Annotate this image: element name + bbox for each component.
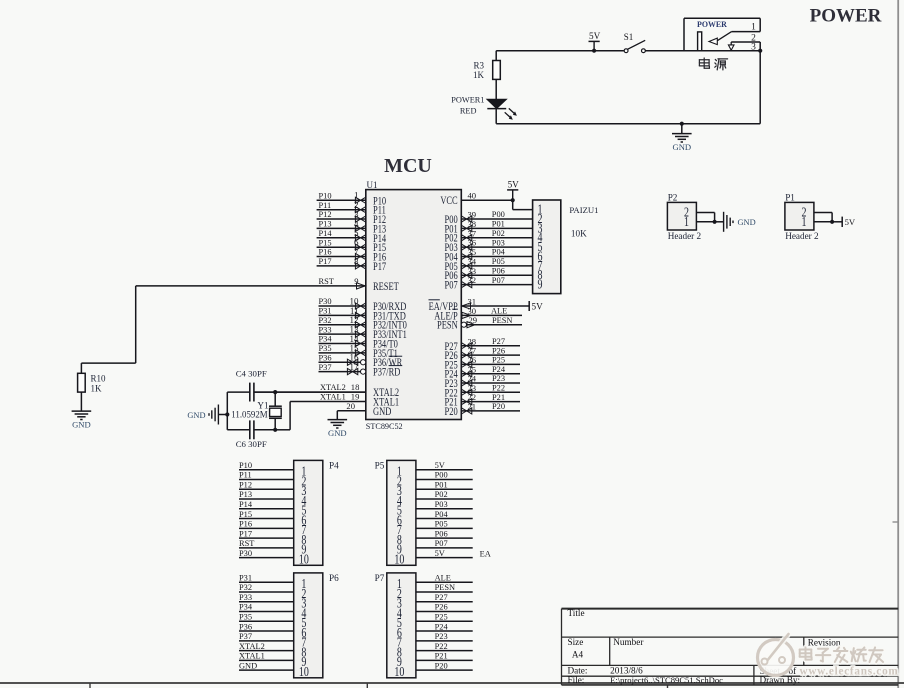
svg-text:R10: R10 xyxy=(91,374,107,384)
svg-text:P31: P31 xyxy=(319,307,332,316)
svg-text:P00: P00 xyxy=(435,471,448,480)
ground GND below U1 xyxy=(328,411,348,438)
wire net P12 to P4 pin 3 xyxy=(239,480,294,489)
pin 10 P30/RXD of U1 with net label P30 xyxy=(319,296,407,313)
wire net P14 to P4 pin 5 xyxy=(239,500,294,509)
svg-text:EA: EA xyxy=(480,549,491,558)
svg-text:GND: GND xyxy=(72,420,91,430)
svg-text:P24: P24 xyxy=(492,365,506,374)
svg-text:File:: File: xyxy=(568,675,585,685)
svg-text:P27: P27 xyxy=(435,593,448,602)
svg-text:P32: P32 xyxy=(239,583,252,592)
wire net P31 to P6 pin 1 xyxy=(239,573,294,582)
svg-text:P00: P00 xyxy=(492,210,505,219)
wire net P30 to P4 pin 10 xyxy=(239,549,294,558)
svg-text:5V: 5V xyxy=(508,180,520,190)
wire net GND to P6 pin 10 xyxy=(239,661,294,670)
svg-text:10: 10 xyxy=(394,663,404,679)
pin 6 P15 of U1 with net label P15 xyxy=(317,238,387,255)
connector P4 Header 10 xyxy=(294,460,339,566)
pin 20 GND of U1 xyxy=(337,401,391,418)
wire net PESN to P7 pin 2 xyxy=(416,583,473,592)
svg-text:P35: P35 xyxy=(239,612,252,621)
svg-text:P7: P7 xyxy=(375,573,385,583)
svg-text:5V: 5V xyxy=(435,549,445,558)
svg-text:POWER: POWER xyxy=(697,20,727,29)
svg-text:P26: P26 xyxy=(492,346,505,355)
capacitor C6 30PF xyxy=(227,420,275,448)
svg-text:Revision: Revision xyxy=(808,637,841,647)
pin 15 P35/T1 of U1 with net label P35 xyxy=(319,343,398,360)
wire net RST to P4 pin 9 xyxy=(239,539,294,548)
svg-text:P02: P02 xyxy=(435,490,448,499)
pin 14 P34/T0 of U1 with net label P34 xyxy=(319,334,398,351)
wire net P35 to P6 pin 5 xyxy=(239,612,294,621)
svg-text:P14: P14 xyxy=(319,229,333,238)
svg-text:P11: P11 xyxy=(239,471,252,480)
svg-text:P07: P07 xyxy=(435,539,448,548)
svg-text:11.0592M: 11.0592M xyxy=(231,409,268,419)
svg-text:P12: P12 xyxy=(239,480,252,489)
svg-text:10K: 10K xyxy=(571,228,587,238)
svg-text:P35: P35 xyxy=(319,344,332,353)
pin 33 P06 of U1 with net label P06 xyxy=(445,266,533,283)
wire ground rail bottom of power loop xyxy=(496,123,760,125)
svg-text:P22: P22 xyxy=(435,642,448,651)
svg-text:P25: P25 xyxy=(435,612,448,621)
wire 5V to PAIZU1 pin 1 xyxy=(513,200,533,209)
wire net P13 to P4 pin 4 xyxy=(239,490,294,499)
svg-text:10: 10 xyxy=(299,551,309,567)
svg-text:P25: P25 xyxy=(492,356,505,365)
wire net P37 to P6 pin 7 xyxy=(239,632,294,641)
svg-text:20: 20 xyxy=(346,401,355,411)
svg-text:www.elecfans.com: www.elecfans.com xyxy=(800,666,899,678)
svg-text:GND: GND xyxy=(328,428,347,438)
ground GND at crystal rail xyxy=(187,405,229,425)
pin 32 P07 of U1 with net label P07 xyxy=(445,275,533,292)
svg-text:P06: P06 xyxy=(492,266,505,275)
wire net P22 to P7 pin 8 xyxy=(416,642,473,651)
pin 19 XTAL1 of U1 with net label XTAL1 xyxy=(290,392,399,409)
svg-text:5V: 5V xyxy=(532,301,544,311)
svg-text:STC89C52: STC89C52 xyxy=(366,422,403,431)
pin 3 P12 of U1 with net label P12 xyxy=(317,209,387,226)
pin 13 P33/INT1 of U1 with net label P33 xyxy=(319,325,407,342)
svg-text:Size: Size xyxy=(568,637,584,647)
connector P7 Header 10 xyxy=(375,573,416,679)
pin 21 P20 of U1 with net label P20 xyxy=(445,402,520,419)
svg-text:10: 10 xyxy=(394,551,404,567)
svg-text:P04: P04 xyxy=(435,510,449,519)
wire net P27 to P7 pin 3 xyxy=(416,593,473,602)
svg-text:9: 9 xyxy=(538,276,543,292)
svg-text:P30: P30 xyxy=(319,297,332,306)
svg-text:PAIZU1: PAIZU1 xyxy=(569,205,598,215)
wire net P24 to P7 pin 6 xyxy=(416,622,473,631)
svg-text:P20: P20 xyxy=(435,661,448,670)
svg-text:P13: P13 xyxy=(319,220,332,229)
svg-text:P11: P11 xyxy=(319,201,332,210)
switch S1 xyxy=(624,32,646,53)
ground GND below R10 xyxy=(72,411,92,430)
svg-text:P30: P30 xyxy=(239,549,252,558)
svg-text:RESET: RESET xyxy=(373,281,399,294)
watermark elecfans stamp xyxy=(758,634,899,678)
wire net P05 to P5 pin 7 xyxy=(416,520,473,529)
svg-text:S1: S1 xyxy=(624,32,634,42)
svg-text:E:\project6..\STC89C51.SchDoc: E:\project6..\STC89C51.SchDoc xyxy=(610,675,723,685)
svg-text:1K: 1K xyxy=(473,70,485,80)
title block xyxy=(562,608,899,685)
wire net P25 to P7 pin 5 xyxy=(416,612,473,621)
svg-text:P34: P34 xyxy=(319,335,333,344)
wire left rail of crystal loop xyxy=(226,392,228,430)
svg-text:5V: 5V xyxy=(845,217,856,227)
resistor R10 1K xyxy=(78,373,106,411)
pin 26 P25 of U1 with net label P25 xyxy=(445,355,520,372)
wire net P15 to P4 pin 6 xyxy=(239,510,294,519)
svg-text:XTAL2: XTAL2 xyxy=(320,383,346,392)
svg-text:P21: P21 xyxy=(492,393,505,402)
svg-text:P4: P4 xyxy=(329,461,339,471)
wire XTAL2 node to crystal top xyxy=(273,390,366,394)
svg-text:P04: P04 xyxy=(492,248,506,257)
svg-text:MCU: MCU xyxy=(384,155,432,177)
svg-text:P23: P23 xyxy=(435,632,448,641)
svg-text:P27: P27 xyxy=(492,337,505,346)
svg-text:GND: GND xyxy=(672,142,691,152)
svg-text:PESN: PESN xyxy=(492,316,512,325)
svg-text:P24: P24 xyxy=(435,622,449,631)
svg-text:5V: 5V xyxy=(435,461,445,470)
svg-text:RST: RST xyxy=(239,539,254,548)
pin 18 XTAL2 of U1 with net label XTAL2 xyxy=(254,382,399,399)
svg-text:P31: P31 xyxy=(239,573,252,582)
connector P2 Header 2 to GND xyxy=(667,192,755,241)
svg-text:P14: P14 xyxy=(239,500,253,509)
label 电源 xyxy=(699,58,727,70)
pin 30 ALE/P of U1 with net label ALE xyxy=(434,306,522,323)
svg-text:P21: P21 xyxy=(435,652,448,661)
svg-text:P03: P03 xyxy=(492,238,505,247)
title POWER xyxy=(810,6,882,27)
svg-text:R3: R3 xyxy=(473,60,484,70)
pin 8 P17 of U1 with net label P17 xyxy=(317,256,387,273)
svg-text:ALE: ALE xyxy=(435,573,451,582)
svg-text:A4: A4 xyxy=(572,649,584,659)
wire net P33 to P6 pin 3 xyxy=(239,593,294,602)
op-amp U1 designator xyxy=(367,180,378,190)
svg-text:P20: P20 xyxy=(445,406,458,419)
svg-text:10: 10 xyxy=(299,663,309,679)
connector P1 Header 2 to 5V xyxy=(785,192,856,241)
pin 25 P24 of U1 with net label P24 xyxy=(445,364,520,381)
svg-text:Number: Number xyxy=(613,637,643,647)
svg-text:XTAL1: XTAL1 xyxy=(320,393,346,402)
wire net P06 to P5 pin 8 xyxy=(416,529,473,538)
svg-text:5V: 5V xyxy=(589,31,601,41)
svg-text:POWER1: POWER1 xyxy=(451,95,484,104)
svg-text:P07: P07 xyxy=(445,279,458,292)
svg-text:P6: P6 xyxy=(329,573,339,583)
svg-text:RD: RD xyxy=(389,366,401,379)
pin 40 VCC of U1 wire to 5V xyxy=(440,190,512,207)
pin 17 P37/RD of U1 with net label P37 xyxy=(319,362,403,379)
svg-text:PESN: PESN xyxy=(435,583,455,592)
svg-text:1: 1 xyxy=(802,213,807,229)
svg-text:GND: GND xyxy=(738,218,756,227)
wire net P02 to P5 pin 4 xyxy=(416,490,473,499)
pin 2 P11 of U1 with net label P11 xyxy=(317,200,386,217)
crystal Y1 11.0592M xyxy=(231,392,281,430)
wire net P00 to P5 pin 2 xyxy=(416,471,473,480)
wire 5V rail from R3 to jack xyxy=(496,50,684,52)
svg-text:P10: P10 xyxy=(239,461,252,470)
wire net 5V to P5 pin 1 xyxy=(416,461,473,470)
svg-text:P01: P01 xyxy=(492,220,505,229)
pin 9 RESET of U1 with net label RST and wire to R10 xyxy=(81,276,399,373)
svg-text:P20: P20 xyxy=(492,402,505,411)
pin 1 P10 of U1 with net label P10 xyxy=(317,191,387,208)
svg-text:GND: GND xyxy=(187,411,205,420)
svg-text:U1: U1 xyxy=(367,180,378,190)
svg-text:P17: P17 xyxy=(239,529,252,538)
svg-text:RED: RED xyxy=(460,107,477,116)
svg-text:GND: GND xyxy=(373,406,392,419)
connector P5 Header 10 xyxy=(375,460,416,566)
power port 5V at VCC xyxy=(507,180,519,203)
svg-text:P23: P23 xyxy=(492,374,505,383)
svg-text:Header 2: Header 2 xyxy=(785,231,819,241)
svg-text:1: 1 xyxy=(751,23,756,33)
svg-text:VCC: VCC xyxy=(440,195,457,208)
wire crystal bottom to XTAL1 xyxy=(273,402,290,432)
svg-text:P02: P02 xyxy=(492,229,505,238)
svg-text:3: 3 xyxy=(751,42,756,52)
pin 16 P36/WR of U1 with net label P36 xyxy=(319,353,403,370)
svg-text:P33: P33 xyxy=(319,325,332,334)
pin 7 P16 of U1 with net label P16 xyxy=(317,247,387,264)
wire net P10 to P4 pin 1 xyxy=(239,461,294,470)
title MCU xyxy=(384,155,432,177)
svg-text:P16: P16 xyxy=(239,520,252,529)
pin 12 P32/INT0 of U1 with net label P32 xyxy=(319,315,407,332)
svg-text:P32: P32 xyxy=(319,316,332,325)
wire net P21 to P7 pin 9 xyxy=(416,652,473,661)
svg-text:P17: P17 xyxy=(319,257,332,266)
wire net P17 to P4 pin 8 xyxy=(239,529,294,538)
resistor R3 xyxy=(473,51,500,100)
wire net P11 to P4 pin 2 xyxy=(239,471,294,480)
wire net P26 to P7 pin 4 xyxy=(416,603,473,612)
svg-text:P12: P12 xyxy=(319,210,332,219)
connector power jack 电源 xyxy=(684,18,760,52)
wire net 5V to P5 pin 10 xyxy=(416,549,491,559)
wire net P20 to P7 pin 10 xyxy=(416,661,473,670)
pin 36 P03 of U1 with net label P03 xyxy=(445,238,533,255)
svg-text:P36: P36 xyxy=(239,622,252,631)
svg-text:P03: P03 xyxy=(435,500,448,509)
pin 11 P31/TXD of U1 with net label P31 xyxy=(319,306,407,323)
LED POWER1 RED xyxy=(451,95,517,123)
wire net P01 to P5 pin 3 xyxy=(416,480,473,489)
pin 39 P00 of U1 with net label P00 xyxy=(445,210,533,227)
svg-text:1: 1 xyxy=(684,213,689,229)
wire net P07 to P5 pin 9 xyxy=(416,539,473,548)
svg-text:P10: P10 xyxy=(319,192,332,201)
pin 31 EA/VPP of U1 with 5V power port xyxy=(429,296,544,313)
svg-text:POWER: POWER xyxy=(810,6,882,27)
svg-text:P37/: P37/ xyxy=(373,366,389,379)
svg-text:1K: 1K xyxy=(91,384,103,394)
wire jack pin3 to ground rail xyxy=(758,49,762,124)
svg-text:GND: GND xyxy=(239,661,257,670)
svg-text:P01: P01 xyxy=(435,480,448,489)
pin 29 PESN of U1 with net label PESN xyxy=(437,315,522,332)
svg-text:P5: P5 xyxy=(375,461,385,471)
svg-text:XTAL1: XTAL1 xyxy=(239,652,265,661)
pin 35 P04 of U1 with net label P04 xyxy=(445,247,533,264)
wire net P16 to P4 pin 7 xyxy=(239,520,294,529)
ground GND power loop xyxy=(672,122,692,153)
svg-text:C4 30PF: C4 30PF xyxy=(236,369,267,379)
pin 24 P23 of U1 with net label P23 xyxy=(445,374,520,391)
svg-text:RST: RST xyxy=(319,277,334,286)
wire net P34 to P6 pin 4 xyxy=(239,603,294,612)
svg-text:P37: P37 xyxy=(239,632,252,641)
pin 34 P05 of U1 with net label P05 xyxy=(445,256,533,273)
power port 5V at rail xyxy=(589,31,601,53)
svg-text:PESN: PESN xyxy=(437,319,458,332)
svg-text:P05: P05 xyxy=(435,520,448,529)
svg-text:Title: Title xyxy=(568,608,585,618)
svg-text:P1: P1 xyxy=(785,192,795,202)
wire net P03 to P5 pin 5 xyxy=(416,500,473,509)
pin 38 P01 of U1 with net label P01 xyxy=(445,219,533,236)
pin 27 P26 of U1 with net label P26 xyxy=(445,346,520,363)
svg-text:P05: P05 xyxy=(492,257,505,266)
pin 37 P02 of U1 with net label P02 xyxy=(445,228,533,245)
svg-text:P26: P26 xyxy=(435,603,448,612)
svg-text:P13: P13 xyxy=(239,490,252,499)
resistor network PAIZU1 10K xyxy=(533,200,599,294)
svg-text:C6 30PF: C6 30PF xyxy=(236,439,267,449)
wire net P32 to P6 pin 2 xyxy=(239,583,294,592)
svg-text:P17: P17 xyxy=(373,261,386,274)
svg-text:Header 2: Header 2 xyxy=(668,231,702,241)
svg-text:P2: P2 xyxy=(668,192,678,202)
pin 4 P13 of U1 with net label P13 xyxy=(317,219,387,236)
svg-text:P34: P34 xyxy=(239,603,253,612)
connector P6 Header 10 xyxy=(294,573,339,679)
svg-text:P07: P07 xyxy=(492,276,505,285)
svg-text:P15: P15 xyxy=(239,510,252,519)
svg-text:40: 40 xyxy=(468,190,477,200)
MCU U1 body STC89C52 xyxy=(366,190,462,432)
wire net P36 to P6 pin 6 xyxy=(239,622,294,631)
wire net XTAL2 to P6 pin 8 xyxy=(239,642,294,651)
svg-text:P15: P15 xyxy=(319,238,332,247)
wire net P04 to P5 pin 6 xyxy=(416,510,473,519)
svg-text:P06: P06 xyxy=(435,529,448,538)
svg-text:P37: P37 xyxy=(319,363,332,372)
pin 5 P14 of U1 with net label P14 xyxy=(317,228,387,245)
svg-text:XTAL2: XTAL2 xyxy=(239,642,265,651)
svg-text:P33: P33 xyxy=(239,593,252,602)
svg-text:ALE: ALE xyxy=(491,307,507,316)
pin 23 P22 of U1 with net label P22 xyxy=(445,383,520,400)
svg-text:P16: P16 xyxy=(319,248,332,257)
svg-text:P22: P22 xyxy=(492,384,505,393)
wire net P23 to P7 pin 7 xyxy=(416,632,473,641)
wire net XTAL1 to P6 pin 9 xyxy=(239,652,294,661)
wire net ALE to P7 pin 1 xyxy=(416,573,473,582)
capacitor C4 30PF xyxy=(227,369,275,402)
pin 28 P27 of U1 with net label P27 xyxy=(445,336,520,353)
pin 22 P21 of U1 with net label P21 xyxy=(445,392,520,409)
svg-text:P36: P36 xyxy=(319,353,332,362)
